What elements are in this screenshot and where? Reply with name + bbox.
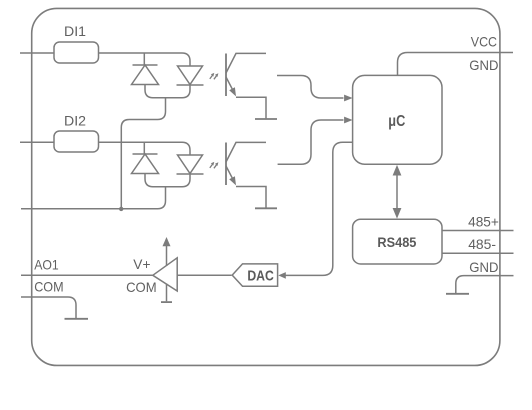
- ground (Q2 emitter): [255, 207, 277, 209]
- junction dot (DI1 return joins common): [119, 207, 123, 211]
- opto phototransistor Q2 (DI2): [226, 142, 266, 185]
- svg-text:VCC: VCC: [471, 34, 497, 50]
- svg-text:GND: GND: [469, 259, 498, 275]
- svg-text:GND: GND: [469, 57, 498, 73]
- enclosure border: [32, 8, 500, 365]
- wire op-amp COM tap: [166, 284, 168, 302]
- wire Q1 emitter to ground: [236, 97, 266, 118]
- svg-text:485-: 485-: [468, 236, 496, 252]
- wire branch to D3 cathode: [143, 142, 145, 154]
- resistor R1 (DI1 series): [54, 42, 99, 63]
- wire DI2 rail to LED anode: [99, 142, 190, 155]
- wire U-connector joining D3/D4 bottoms (DI2): [145, 174, 190, 187]
- wire opto2 output to uC input 2: [278, 117, 353, 165]
- wire uC-RS485 bidirectional arrow: [393, 165, 402, 219]
- wire DAC to op-amp input: [177, 274, 231, 276]
- svg-text:RS485: RS485: [377, 234, 416, 250]
- wire uC to DAC: [278, 142, 352, 279]
- wire DI1 rail to LED anode: [99, 53, 190, 66]
- ground (op-amp COM): [161, 301, 172, 303]
- svg-text:485+: 485+: [468, 213, 499, 229]
- svg-text:DAC: DAC: [247, 268, 274, 285]
- wire uC VCC: [398, 53, 514, 76]
- wire V+ supply arrow: [163, 237, 171, 266]
- opto phototransistor Q1 (DI1): [226, 53, 266, 96]
- ground (COM): [65, 318, 89, 320]
- wire DI1 return tap down-left to common: [121, 98, 165, 209]
- opto LED D4 (DI2): [177, 155, 204, 174]
- wire 485-: [442, 252, 514, 254]
- svg-text:V+: V+: [133, 256, 150, 272]
- wire COM to ground: [21, 297, 76, 319]
- DAC block: [232, 264, 277, 286]
- resistor R2 (DI2 series): [54, 131, 99, 152]
- svg-text:μC: μC: [388, 113, 405, 130]
- diode D3 (TVS, DI2): [132, 154, 159, 174]
- opto LED D2 (DI1): [177, 66, 204, 85]
- wire DI common line: [21, 187, 166, 209]
- wire U-connector joining D1/D2 bottoms (DI1): [145, 85, 190, 98]
- wire branch to D1 cathode: [143, 53, 145, 65]
- opto light arrows (DI2): [210, 162, 219, 168]
- uC block: [353, 75, 442, 164]
- wire DI2 input stub: [20, 141, 54, 143]
- diode D1 (TVS, DI1): [132, 65, 159, 85]
- svg-text:COM: COM: [126, 279, 157, 295]
- svg-text:DI1: DI1: [64, 23, 86, 39]
- ground (GND rail): [446, 293, 469, 295]
- wire opto1 output to uC input 1: [277, 76, 353, 102]
- svg-text:COM: COM: [34, 278, 63, 294]
- wire GND rail to ground: [456, 276, 514, 294]
- wire 485+: [442, 230, 514, 232]
- wire AO1 output: [21, 274, 153, 276]
- RS485 block: [353, 219, 442, 264]
- ground (Q1 emitter): [255, 118, 277, 120]
- wire DI1 input stub: [20, 52, 54, 54]
- op-amp U1 (AO1 buffer): [153, 258, 177, 291]
- svg-text:DI2: DI2: [64, 113, 86, 129]
- wire Q2 emitter to ground: [236, 187, 266, 208]
- svg-text:AO1: AO1: [34, 256, 59, 272]
- opto light arrows (DI1): [210, 73, 219, 79]
